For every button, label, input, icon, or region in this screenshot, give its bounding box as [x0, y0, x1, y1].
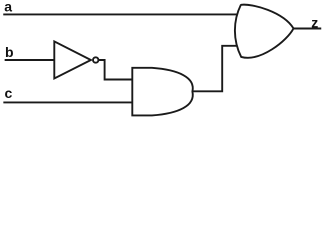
inverter U1 bubble — [93, 57, 98, 62]
and-gate U2 — [132, 68, 192, 116]
inverter U1 triangle — [54, 41, 91, 78]
wire U1 output to U2 upper input — [98, 60, 133, 80]
wire net a — [4, 13, 246, 15]
svg-text:z: z — [311, 15, 318, 31]
svg-text:c: c — [5, 85, 13, 101]
svg-text:a: a — [4, 0, 12, 15]
wire net z — [293, 28, 320, 30]
or-gate U3 — [235, 5, 294, 58]
wire U2 output to U3 lower input — [192, 46, 246, 92]
wire net c — [4, 101, 133, 103]
svg-text:b: b — [5, 44, 14, 60]
wire net b — [6, 59, 55, 61]
